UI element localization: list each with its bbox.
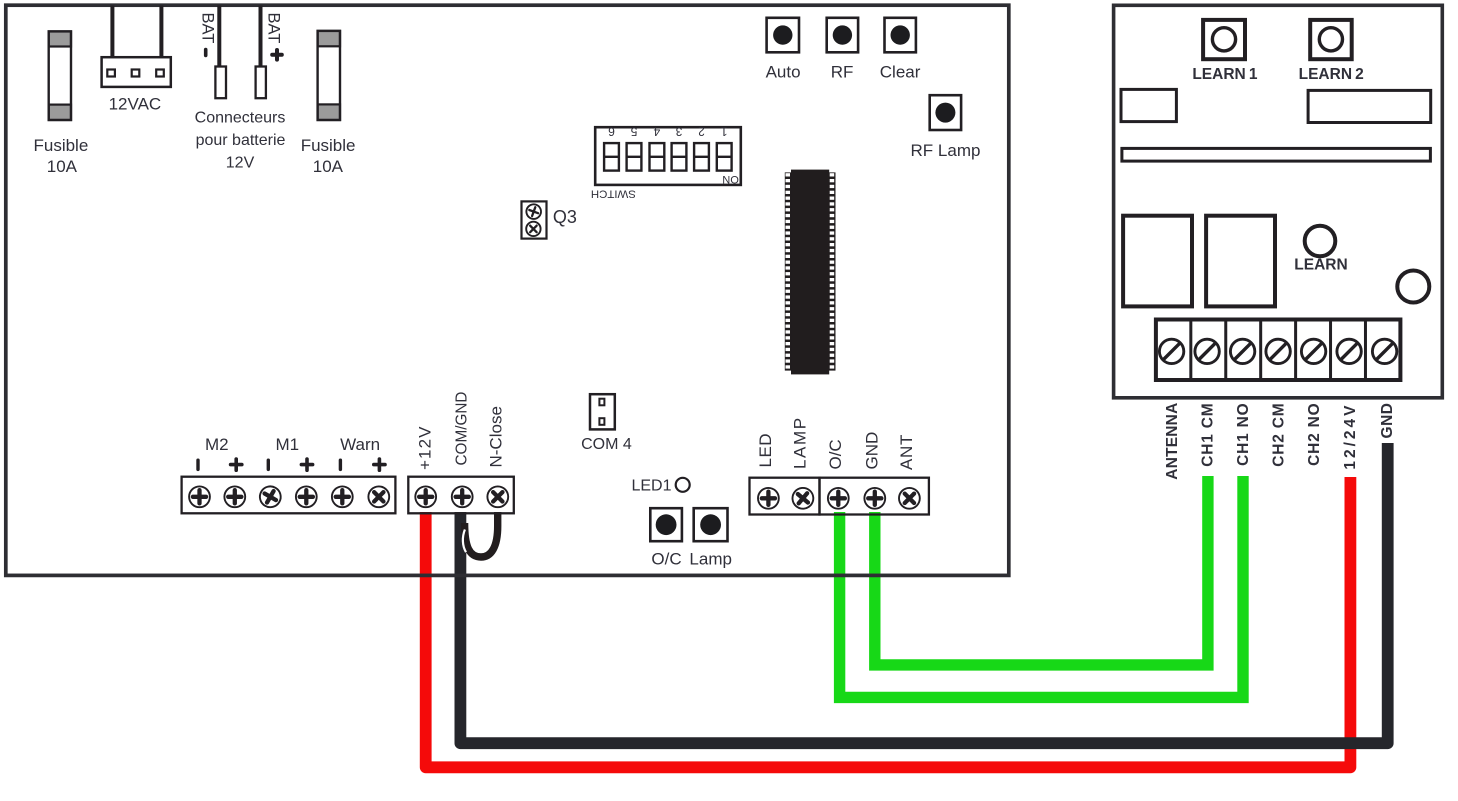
terminal screw 1	[189, 486, 210, 507]
button LEARN2	[1310, 20, 1352, 59]
component header left	[1121, 89, 1176, 121]
polarity marks M2 M1 Warn	[196, 460, 199, 469]
terminal screw LAMP	[788, 484, 817, 513]
terminal screw +12V	[415, 486, 436, 507]
main control board PCB background	[4, 4, 1011, 578]
svg-text:RF: RF	[831, 63, 854, 82]
svg-text:LED1: LED1	[631, 478, 671, 495]
connector J1 12VAC	[102, 57, 171, 87]
receiver terminal screw 3	[1230, 339, 1254, 363]
svg-text:Fusible: Fusible	[33, 136, 88, 155]
terminal screw O/C	[828, 488, 849, 509]
relay K1	[1123, 216, 1192, 307]
svg-text:LED: LED	[756, 433, 775, 468]
button O/C	[650, 508, 682, 541]
wire black COM/GND to GND	[460, 443, 1387, 743]
svg-text:ON: ON	[722, 173, 739, 185]
DIP switch SW1	[595, 127, 741, 185]
svg-text:ANTENNA: ANTENNA	[1164, 403, 1181, 480]
wire jumper loop N-Close	[465, 512, 498, 557]
receiver terminal screw 5	[1301, 339, 1325, 363]
svg-text:GND: GND	[862, 432, 881, 470]
svg-text:LEARN: LEARN	[1294, 257, 1347, 274]
svg-text:Auto: Auto	[766, 63, 801, 82]
relay K2	[1206, 216, 1275, 307]
component header right	[1308, 90, 1431, 122]
wire green GND to CH1 CM	[875, 476, 1208, 665]
wire green O/C to CH1 NO	[840, 476, 1243, 697]
transistor Q3 screws	[522, 201, 547, 238]
svg-text:CH1 NO: CH1 NO	[1235, 403, 1252, 466]
svg-text:3: 3	[675, 125, 682, 139]
terminal block O/C GND ANT	[820, 478, 929, 515]
DIP switch lever 1	[717, 143, 732, 171]
svg-text:10A: 10A	[47, 157, 78, 176]
svg-text:12VAC: 12VAC	[109, 95, 162, 114]
DIP switch lever 2	[694, 143, 709, 171]
terminal block LED LAMP	[750, 478, 820, 515]
svg-text:Q3: Q3	[553, 207, 577, 227]
svg-text:5: 5	[630, 125, 637, 139]
receiver terminal screw 6	[1337, 339, 1361, 363]
svg-text:M1: M1	[275, 435, 299, 454]
svg-text:CH2 NO: CH2 NO	[1306, 403, 1323, 466]
svg-text:SWITCH: SWITCH	[591, 187, 636, 199]
receiver module outline	[1114, 5, 1443, 398]
svg-text:N-Close: N-Close	[486, 406, 505, 467]
wire 12VAC left lead	[110, 6, 114, 58]
receiver module PCB background	[1112, 4, 1444, 400]
connector BAT-	[215, 67, 226, 99]
connector BAT+	[256, 67, 266, 99]
button RF	[827, 18, 858, 53]
svg-text:COM 4: COM 4	[581, 436, 632, 453]
connector bar	[1122, 148, 1431, 161]
svg-text:CH1 CM: CH1 CM	[1200, 403, 1217, 467]
wire 12VAC right lead	[159, 6, 163, 58]
svg-text:4: 4	[653, 125, 660, 139]
svg-text:1: 1	[721, 125, 728, 139]
svg-text:O/C: O/C	[826, 439, 845, 469]
svg-text:LEARN 2: LEARN 2	[1299, 66, 1364, 83]
DIP switch lever 6	[604, 143, 619, 171]
wire red +12V to 12/24V	[426, 477, 1351, 767]
terminal screw 3	[256, 483, 284, 511]
svg-text:+12V: +12V	[416, 425, 435, 470]
svg-text:Connecteurs: Connecteurs	[195, 110, 286, 127]
svg-text:O/C: O/C	[651, 549, 681, 568]
svg-text:CH2 CM: CH2 CM	[1271, 403, 1288, 467]
terminal screw ANT	[895, 484, 924, 513]
DIP switch lever 3	[672, 143, 687, 171]
button RF Lamp	[930, 95, 961, 130]
svg-text:GND: GND	[1379, 403, 1396, 439]
svg-text:12V: 12V	[226, 154, 255, 171]
DIP switch lever 4	[650, 143, 665, 171]
button Auto	[767, 18, 799, 53]
receiver terminal screw 7	[1372, 339, 1396, 363]
svg-text:ANT: ANT	[897, 434, 916, 470]
IC U1 microcontroller	[785, 170, 836, 375]
button Clear	[885, 18, 916, 53]
fuse F2 right	[318, 31, 340, 46]
svg-text:Lamp: Lamp	[689, 549, 732, 568]
terminal screw 5	[332, 486, 353, 507]
terminal screw 4	[296, 486, 317, 507]
svg-text:COM/GND: COM/GND	[454, 392, 471, 466]
svg-text:Fusible: Fusible	[301, 136, 356, 155]
svg-text:M2: M2	[205, 435, 229, 454]
svg-text:Warn: Warn	[340, 435, 380, 454]
connector COM 4	[590, 394, 615, 429]
terminal screw 6	[364, 482, 393, 511]
fuse F1 left	[49, 31, 71, 46]
svg-text:Clear: Clear	[880, 63, 921, 82]
terminal block M2 M1 Warn	[182, 477, 396, 514]
mounting hole	[1397, 271, 1429, 303]
svg-text:6: 6	[608, 125, 615, 139]
main control board outline	[6, 5, 1009, 575]
svg-text:12/24V: 12/24V	[1342, 403, 1359, 470]
wire BAT- lead	[217, 6, 221, 68]
svg-text:pour batterie: pour batterie	[196, 132, 286, 149]
terminal strip receiver	[1156, 320, 1401, 381]
terminal screw 2	[224, 486, 245, 507]
receiver terminal screw 2	[1195, 339, 1219, 363]
svg-text:LEARN 1: LEARN 1	[1192, 66, 1257, 83]
terminal screw COM/GND	[452, 486, 473, 507]
svg-text:RF Lamp: RF Lamp	[911, 141, 981, 160]
svg-text:10A: 10A	[313, 157, 344, 176]
svg-text:2: 2	[698, 125, 705, 139]
svg-text:BAT: BAT	[265, 13, 283, 44]
receiver terminal screw 1	[1159, 339, 1183, 363]
svg-text:BAT: BAT	[198, 13, 216, 44]
button Lamp	[694, 508, 728, 541]
LED LEARN indicator	[1305, 226, 1336, 257]
svg-text:LAMP: LAMP	[791, 416, 810, 469]
DIP switch lever 5	[627, 143, 642, 171]
button LEARN1	[1203, 20, 1245, 59]
terminal block power	[408, 477, 514, 514]
terminal screw GND	[864, 488, 885, 509]
wire BAT+ lead	[259, 6, 263, 68]
terminal screw N-Close	[483, 482, 512, 511]
terminal screw LED	[758, 488, 779, 509]
receiver terminal screw 4	[1266, 339, 1290, 363]
